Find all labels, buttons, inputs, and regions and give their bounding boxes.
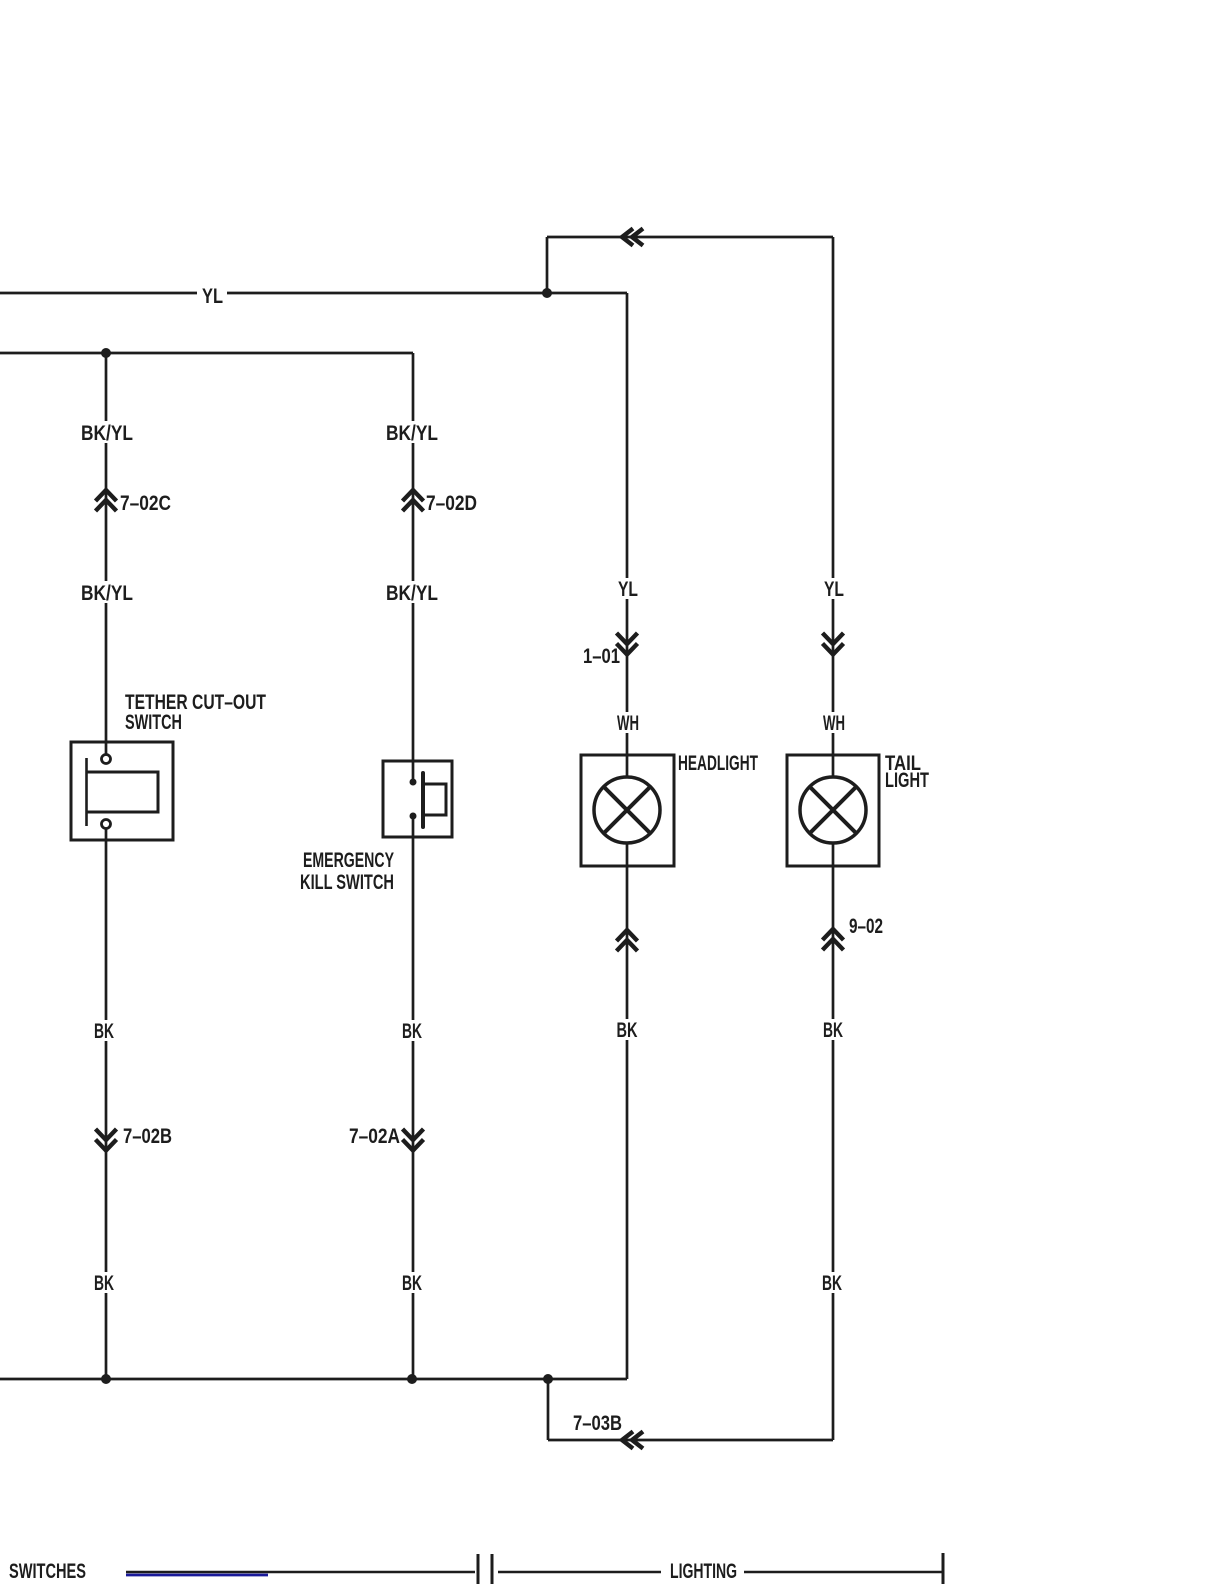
svg-text:7–02D: 7–02D xyxy=(426,492,477,515)
svg-text:YL: YL xyxy=(202,285,223,308)
svg-text:BK: BK xyxy=(94,1272,114,1295)
svg-text:YL: YL xyxy=(824,578,844,601)
svg-text:9–02: 9–02 xyxy=(849,915,883,938)
svg-text:WH: WH xyxy=(823,712,845,735)
svg-text:BK: BK xyxy=(402,1272,422,1295)
svg-text:BK: BK xyxy=(823,1019,843,1042)
svg-text:BK: BK xyxy=(617,1019,638,1042)
svg-text:LIGHTING: LIGHTING xyxy=(670,1560,737,1583)
svg-text:BK: BK xyxy=(822,1272,842,1295)
svg-text:7–02A: 7–02A xyxy=(349,1125,400,1148)
svg-text:EMERGENCY: EMERGENCY xyxy=(303,849,394,872)
svg-text:BK/YL: BK/YL xyxy=(386,582,438,605)
svg-text:YL: YL xyxy=(618,578,638,601)
svg-text:BK/YL: BK/YL xyxy=(386,422,438,445)
svg-text:LIGHT: LIGHT xyxy=(885,769,929,792)
svg-text:7–03B: 7–03B xyxy=(573,1412,622,1435)
svg-text:BK: BK xyxy=(94,1020,114,1043)
svg-text:HEADLIGHT: HEADLIGHT xyxy=(678,752,758,775)
svg-text:BK: BK xyxy=(402,1020,422,1043)
svg-text:BK/YL: BK/YL xyxy=(81,582,133,605)
svg-text:SWITCHES: SWITCHES xyxy=(9,1560,86,1583)
svg-text:7–02B: 7–02B xyxy=(123,1125,172,1148)
svg-text:WH: WH xyxy=(617,712,639,735)
svg-text:BK/YL: BK/YL xyxy=(81,422,133,445)
svg-text:1–01: 1–01 xyxy=(583,645,620,668)
svg-text:SWITCH: SWITCH xyxy=(125,711,182,734)
svg-text:KILL SWITCH: KILL SWITCH xyxy=(300,871,394,894)
svg-text:7–02C: 7–02C xyxy=(120,492,171,515)
